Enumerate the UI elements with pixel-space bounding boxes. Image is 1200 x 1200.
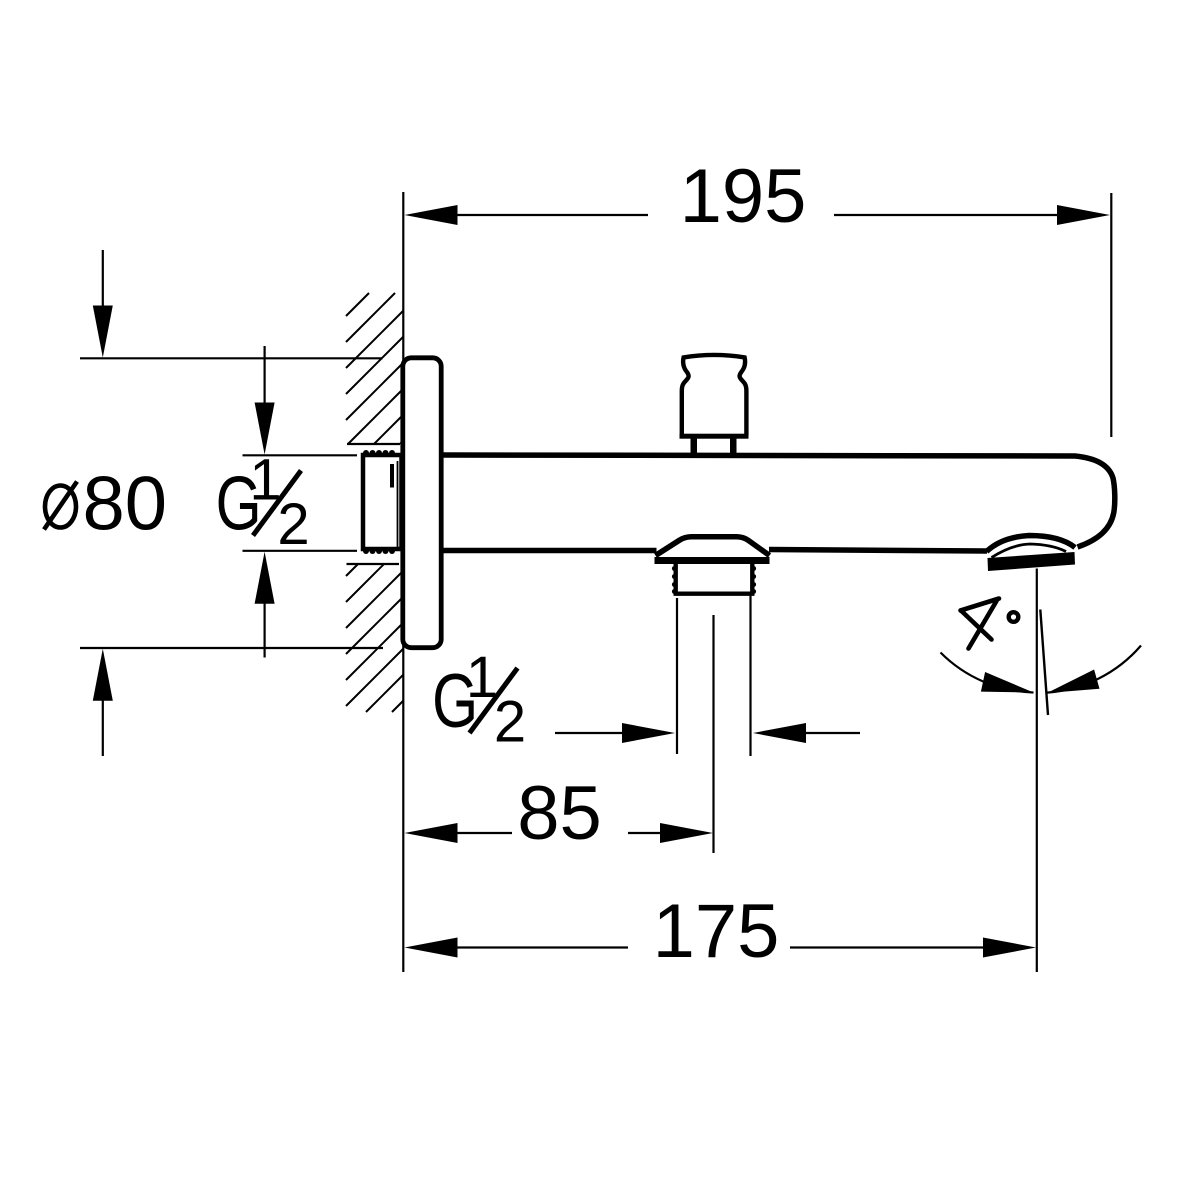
svg-text:195: 195 — [680, 154, 807, 239]
svg-text:85: 85 — [517, 771, 602, 856]
svg-text:80: 80 — [83, 462, 168, 547]
svg-text:175: 175 — [653, 889, 780, 974]
